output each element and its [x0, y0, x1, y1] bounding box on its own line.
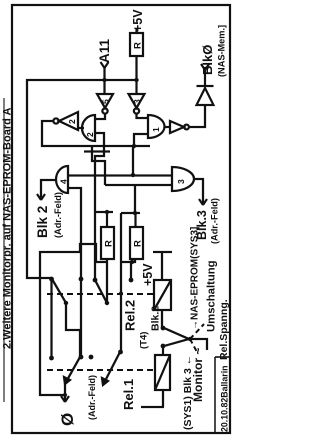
node line121 dash crossing: [119, 292, 123, 296]
node inv2 line: [132, 144, 136, 148]
label 3: [132, 99, 142, 104]
wire coil1 left: [161, 310, 163, 328]
svg-text:Blk.2: Blk.2: [150, 306, 162, 331]
label Blk 2: [35, 206, 50, 238]
wire inv5 out: [95, 114, 105, 120]
label R1: [104, 240, 115, 247]
svg-text:(Adr.-Feld): (Adr.-Feld): [87, 375, 97, 420]
node pivot 2b: [105, 301, 109, 305]
svg-text:(NAS-Mem.]: (NAS-Mem.]: [217, 25, 227, 77]
label Blk.2 T4: [150, 306, 162, 331]
title text: [2, 108, 14, 349]
node R1: [105, 210, 109, 214]
relay 2 contacts: [49, 277, 133, 283]
label 1: [151, 127, 161, 132]
wire gate4 out to Blk2 arrow: [37, 180, 56, 200]
wire coil2 left bar: [141, 390, 164, 407]
wire inv2 out long: [42, 121, 150, 146]
label +5V mid: [141, 263, 155, 286]
svg-text:Ø: Ø: [58, 413, 77, 426]
and-gate 4: [56, 166, 68, 193]
wire gate1 out: [164, 126, 170, 128]
label R pullup: [133, 42, 144, 49]
wire R to +5V: [135, 28, 137, 33]
wire coil2 right: [162, 346, 164, 355]
and-gate 2: [82, 115, 95, 141]
wire pivot2a route: [66, 303, 80, 357]
label Blk.3: [195, 210, 209, 240]
svg-text:R: R: [133, 42, 144, 49]
wire phi net: [40, 244, 107, 395]
svg-text:1: 1: [151, 127, 161, 132]
svg-text:3: 3: [176, 179, 186, 184]
wire R2 right: [134, 213, 136, 227]
dashed link rel1: [47, 369, 155, 371]
svg-text:R: R: [104, 240, 115, 247]
svg-text:5: 5: [101, 99, 111, 104]
label T4: [139, 332, 150, 349]
node pivot 2a: [64, 301, 68, 305]
label Monitor: [191, 348, 205, 402]
and-gate 3: [172, 167, 194, 191]
switch arm 2b: [95, 280, 107, 303]
wire diode out arrow: [201, 64, 209, 86]
svg-text:Rel.Spanng.: Rel.Spanng.: [218, 299, 230, 360]
svg-text:+5V: +5V: [131, 9, 145, 32]
dashed link monitor: [190, 324, 204, 352]
inverter 2: [53, 112, 78, 130]
svg-text:(SYS1) Blk 3 ←: (SYS1) Blk 3 ←: [182, 355, 194, 430]
and-gate 1: [148, 115, 165, 138]
label NAS-Mem: [217, 25, 227, 77]
label phi: [58, 413, 77, 426]
svg-text:Rel.2: Rel.2: [123, 300, 138, 331]
inverter 3: [129, 94, 145, 114]
svg-text:R: R: [133, 240, 144, 247]
label Blk0: [200, 45, 215, 75]
wire gate4 lower input to contacts: [68, 188, 81, 357]
label 4: [59, 179, 69, 184]
label 2 inv: [67, 119, 77, 124]
label A11: [97, 38, 112, 63]
wire coil1 right bar: [153, 252, 172, 280]
svg-text:A11: A11: [97, 38, 112, 63]
wire R pullup column: [94, 212, 140, 213]
inverter 5: [97, 94, 113, 114]
label Umschaltung: [206, 260, 218, 332]
wire invb to diode: [189, 105, 205, 127]
wire gate3 out to Blk3 arrow: [195, 179, 207, 205]
date text: [220, 365, 230, 432]
wire gate4-gate3 column: [68, 174, 172, 176]
node bus-A11: [102, 78, 106, 82]
switch arm 1b wiper: [102, 352, 120, 385]
resistor R pullup: [130, 33, 143, 56]
wire R to node: [135, 56, 137, 80]
label +5V top: [131, 9, 145, 32]
label Adr-Feld phi: [87, 375, 97, 420]
wire line121: [121, 213, 135, 352]
label NAS-EPROM SYS3: [190, 227, 201, 330]
wire gate3 lower input: [105, 185, 172, 213]
diode Blk0: [197, 86, 214, 105]
resistor R2: [130, 227, 143, 259]
svg-text:+5V: +5V: [141, 263, 155, 286]
wire short line151: [84, 150, 110, 152]
switch arm 1a wiper: [64, 357, 80, 384]
node throw2: [161, 344, 166, 349]
border frame: [12, 5, 230, 433]
label 5: [101, 99, 111, 104]
relay coil 2: [155, 355, 170, 390]
svg-text:(Adr.-Feld): (Adr.-Feld): [53, 192, 63, 238]
node phi join: [63, 393, 67, 397]
svg-text:2.Weitere Monitorpr. auf NAS-E: 2.Weitere Monitorpr. auf NAS-EPROM-Board…: [2, 108, 14, 349]
label 2 gate: [85, 132, 95, 137]
wire R1 right: [106, 212, 108, 227]
label Rel.2: [123, 300, 138, 331]
svg-text:(Adr.-Feld): (Adr.-Feld): [210, 198, 220, 244]
svg-text:(T4): (T4): [139, 332, 150, 349]
node R2 bottom: [130, 260, 134, 264]
relay coil 1: [154, 280, 171, 310]
wire R2 left to contact: [130, 262, 132, 280]
label Rel.Spanng: [218, 299, 230, 360]
node branch: [131, 173, 135, 177]
svg-text:2: 2: [67, 119, 77, 124]
wire bus A11 net: [27, 80, 137, 278]
node R2: [133, 211, 137, 215]
svg-text:3: 3: [132, 99, 142, 104]
node throw1: [161, 326, 166, 331]
label SYS1 Blk 3: [182, 355, 194, 430]
svg-text:Rel.1: Rel.1: [121, 379, 136, 410]
wire stair branch: [92, 147, 105, 185]
inverter b: [170, 121, 189, 133]
dashed link rel2: [47, 293, 155, 295]
label Adr-Feld 3: [210, 198, 220, 244]
svg-text:Umschaltung: Umschaltung: [206, 260, 218, 332]
wire branch to gate34: [132, 146, 134, 175]
node monitor pivot: [188, 337, 192, 341]
wire zigzag gate2 lower input: [95, 133, 104, 280]
date box: [215, 357, 230, 433]
wire contact row to bus: [50, 278, 52, 358]
svg-text:2: 2: [85, 132, 95, 137]
svg-text:BlkØ: BlkØ: [200, 45, 215, 75]
svg-text:4: 4: [59, 179, 69, 184]
relay 1 contacts: [49, 350, 123, 361]
svg-text:→NAS-EPROM(SYS3]: →NAS-EPROM(SYS3]: [190, 227, 201, 330]
svg-text:Blk 2: Blk 2: [35, 206, 50, 238]
wire R1 left to pivot: [106, 259, 108, 303]
monitor switch arms: [164, 328, 189, 346]
node bus-R: [134, 78, 138, 82]
wire inv3 out: [137, 114, 149, 119]
wire inv3 to node: [135, 80, 137, 94]
wire phi out: [61, 383, 69, 402]
resistor R1: [101, 227, 114, 259]
label Rel.1: [121, 379, 136, 410]
label 3 gate: [176, 179, 186, 184]
page edge line: [3, 98, 5, 402]
svg-text:20.10.82Ballarin: 20.10.82Ballarin: [220, 365, 230, 432]
wire A11 input: [101, 62, 109, 94]
label R2: [133, 240, 144, 247]
wire monitor pivot stub: [190, 339, 207, 350]
wire to gate1 lower: [134, 134, 148, 146]
switch arm 2a: [52, 279, 66, 303]
label Adr-Feld 2: [53, 192, 63, 238]
wire gate2 out: [78, 127, 84, 129]
